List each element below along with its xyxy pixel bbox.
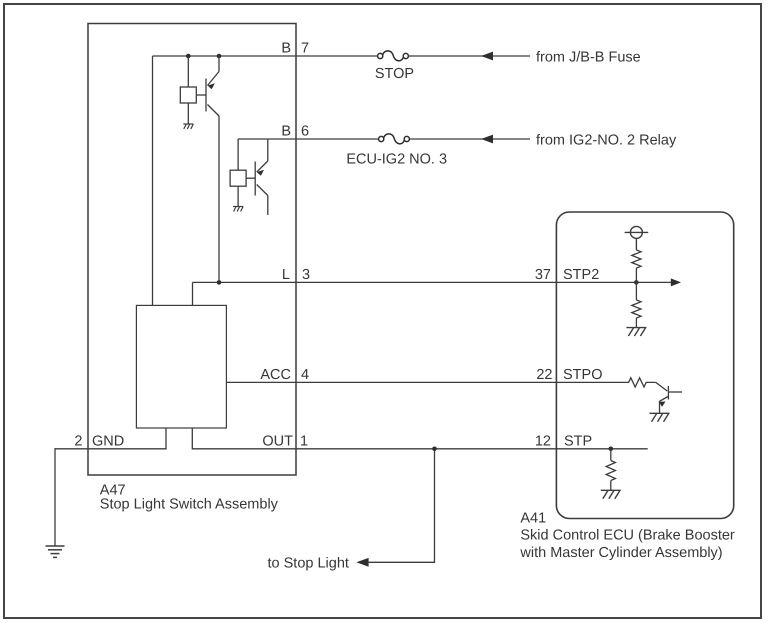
ground (STP2 divider) — [626, 328, 646, 336]
wire L3 / STP2 horizontal — [193, 281, 673, 283]
svg-text:22: 22 — [536, 367, 552, 383]
wire to stop light branch — [368, 449, 435, 563]
power source symbol — [625, 226, 649, 250]
svg-text:from IG2-NO. 2 Relay: from IG2-NO. 2 Relay — [536, 132, 677, 148]
svg-text:12: 12 — [535, 433, 551, 449]
wire fuse STOP to from J/B-B Fuse — [408, 55, 530, 57]
fuse ECU-IG2 NO. 3 — [379, 134, 410, 144]
svg-text:Stop Light Switch Assembly: Stop Light Switch Assembly — [100, 497, 279, 513]
svg-text:A41: A41 — [520, 511, 546, 527]
wire B6 vertical to Q2 — [237, 139, 239, 170]
svg-text:with Master Cylinder Assembly): with Master Cylinder Assembly) — [519, 545, 722, 561]
transistor Q2 — [230, 139, 268, 215]
transistor Q3 — [656, 382, 682, 413]
svg-text:GND: GND — [92, 433, 124, 449]
svg-text:OUT: OUT — [262, 433, 293, 449]
wire GND from switch — [55, 428, 166, 546]
svg-text:37: 37 — [535, 267, 551, 283]
svg-text:ECU-IG2 NO. 3: ECU-IG2 NO. 3 — [346, 152, 447, 168]
switch S1 box — [136, 305, 226, 428]
svg-text:to Stop Light: to Stop Light — [268, 555, 349, 571]
wire B6 horizontal inside A47 — [238, 138, 296, 140]
wire L3 vertical to switch — [192, 282, 194, 305]
svg-text:6: 6 — [301, 124, 309, 140]
transistor Q1 — [180, 56, 219, 282]
svg-text:B: B — [281, 124, 291, 140]
ground (Q3 emitter) — [650, 413, 670, 421]
svg-text:STOP: STOP — [375, 66, 414, 82]
wire ACC4 / STPO horizontal — [226, 381, 626, 383]
node OUT-stoplight junction — [432, 447, 437, 452]
svg-text:STP: STP — [564, 433, 592, 449]
connector A47 box — [88, 24, 296, 476]
resistor R6 (STP pulldown) — [606, 449, 615, 490]
wire fuse ECU-IG2 to from IG2 relay — [409, 138, 530, 140]
node B7-Q1 junction — [217, 54, 222, 59]
resistor R4 (lower STP2) — [632, 300, 641, 327]
svg-text:2: 2 — [74, 433, 82, 449]
wire B7 vertical to switch — [152, 56, 154, 305]
svg-text:STP2: STP2 — [563, 267, 599, 283]
svg-text:4: 4 — [301, 367, 309, 383]
svg-text:1: 1 — [300, 433, 308, 449]
arrow STP2 output — [671, 278, 681, 286]
svg-text:7: 7 — [301, 41, 309, 57]
svg-text:L: L — [282, 267, 290, 283]
svg-text:STPO: STPO — [563, 367, 602, 383]
wire OUT1 / STP horizontal — [192, 428, 647, 449]
ground (GND pin, earth) — [46, 546, 65, 557]
svg-text:from J/B-B Fuse: from J/B-B Fuse — [536, 49, 641, 65]
fuse STOP — [378, 51, 409, 61]
wire B7 horizontal inside A47 — [153, 55, 297, 57]
wire B6 to fuse ECU-IG2 — [296, 138, 379, 140]
node STP junction — [609, 447, 614, 452]
ground (Q2 base resistor) — [233, 207, 243, 212]
node L3-Q1 junction — [217, 280, 222, 285]
resistor R3 (upper STP2) — [632, 250, 641, 300]
node STP2 junction — [634, 280, 639, 285]
svg-text:3: 3 — [302, 267, 310, 283]
svg-text:ACC: ACC — [260, 367, 291, 383]
wire B7 to fuse STOP — [296, 55, 378, 57]
ECU A41 box — [556, 212, 733, 519]
arrow from IG2 relay — [481, 135, 493, 144]
arrow from J/B-B Fuse — [481, 52, 493, 61]
resistor R5 (STPO base) — [626, 378, 655, 387]
arrow to stop light — [356, 558, 368, 567]
ground (Q1 base resistor) — [183, 124, 193, 129]
node B7-R1 junction — [186, 54, 191, 59]
svg-text:Skid Control ECU (Brake Booste: Skid Control ECU (Brake Booster — [520, 528, 735, 544]
svg-text:B: B — [281, 41, 291, 57]
ground (STP pulldown) — [601, 490, 621, 498]
